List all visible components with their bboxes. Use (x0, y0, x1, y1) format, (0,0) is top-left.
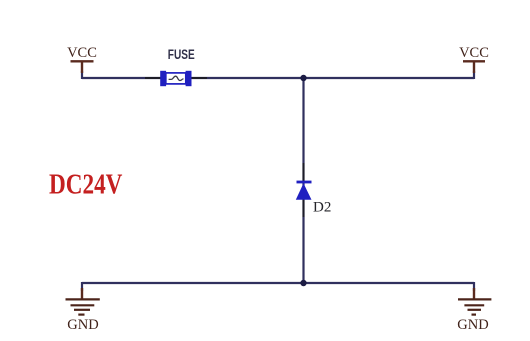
svg-text:GND: GND (457, 317, 488, 333)
diode top pin (303, 163, 305, 182)
svg-text:VCC: VCC (459, 45, 489, 61)
fuse right pin (191, 77, 207, 79)
junction dot top (300, 75, 306, 81)
wire top horizontal VCC rail (82, 77, 474, 79)
svg-text:VCC: VCC (67, 45, 97, 61)
svg-text:DC24V: DC24V (49, 168, 122, 200)
wire vertical center branch (302, 78, 304, 283)
VCC symbol left (71, 61, 94, 73)
wire right GND drop (473, 282, 475, 291)
svg-text:D2: D2 (313, 200, 331, 216)
ground symbol right (458, 288, 491, 315)
fuse FUSE (160, 71, 191, 86)
svg-text:FUSE: FUSE (168, 47, 195, 63)
svg-text:GND: GND (67, 317, 98, 333)
diode D2 (296, 182, 312, 200)
wire right VCC drop (473, 71, 475, 79)
net label DC24V (49, 168, 122, 200)
junction dot bottom (300, 280, 306, 286)
wire left GND drop (81, 282, 83, 291)
fuse label FUSE (168, 47, 195, 63)
diode bottom pin (303, 199, 305, 217)
VCC symbol right (463, 61, 485, 73)
wire left VCC drop (81, 71, 83, 79)
ground symbol left (66, 288, 100, 315)
fuse left pin (145, 77, 161, 79)
wire bottom horizontal GND rail (82, 282, 474, 284)
